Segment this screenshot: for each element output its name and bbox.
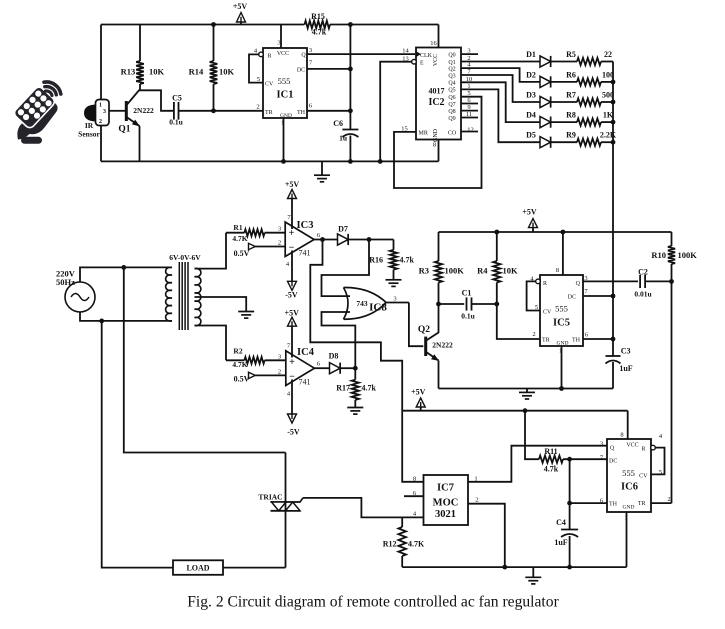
svg-text:14: 14: [402, 48, 409, 55]
svg-text:8: 8: [413, 476, 416, 483]
svg-text:741: 741: [299, 249, 311, 258]
svg-text:+5V: +5V: [522, 208, 537, 217]
svg-text:0.1u: 0.1u: [169, 118, 183, 127]
svg-text:R: R: [543, 281, 547, 287]
svg-text:-5V: -5V: [285, 291, 298, 300]
svg-text:743: 743: [356, 299, 368, 308]
svg-text:555: 555: [278, 76, 291, 86]
svg-text:+5V: +5V: [285, 180, 300, 189]
svg-text:R: R: [268, 54, 272, 60]
svg-text:CLK: CLK: [420, 53, 433, 59]
svg-text:Q8: Q8: [448, 109, 455, 115]
svg-text:6V-0V-6V: 6V-0V-6V: [169, 253, 201, 262]
svg-text:CV: CV: [265, 82, 274, 88]
svg-text:2.2K: 2.2K: [600, 131, 617, 140]
svg-text:R14: R14: [189, 67, 204, 77]
svg-text:C1: C1: [462, 289, 472, 298]
svg-text:IC1: IC1: [277, 90, 294, 101]
svg-text:D1: D1: [526, 50, 536, 59]
svg-text:R5: R5: [566, 50, 576, 59]
svg-text:741: 741: [299, 378, 311, 387]
svg-text:1: 1: [474, 476, 477, 483]
svg-text:IC4: IC4: [297, 347, 315, 358]
svg-text:D4: D4: [526, 111, 536, 120]
svg-text:Q7: Q7: [448, 102, 455, 108]
svg-text:R1: R1: [233, 223, 242, 232]
svg-text:3: 3: [277, 40, 280, 47]
svg-text:D7: D7: [338, 225, 348, 234]
svg-text:10K: 10K: [149, 67, 165, 77]
svg-text:Q: Q: [610, 446, 615, 452]
svg-text:C5: C5: [172, 94, 182, 103]
svg-text:3: 3: [393, 296, 396, 303]
svg-text:Q1: Q1: [448, 60, 455, 66]
svg-text:3021: 3021: [435, 509, 456, 520]
svg-text:1uF: 1uF: [554, 538, 567, 547]
svg-text:10K: 10K: [219, 67, 235, 77]
svg-text:R11: R11: [544, 447, 557, 456]
svg-text:0.1u: 0.1u: [461, 312, 475, 321]
svg-text:DC: DC: [609, 459, 617, 465]
svg-text:1uF: 1uF: [619, 364, 632, 373]
svg-text:CV: CV: [543, 310, 552, 316]
svg-text:IC5: IC5: [553, 318, 570, 329]
svg-text:IC7: IC7: [437, 483, 454, 494]
svg-text:R4: R4: [477, 266, 488, 276]
svg-text:0.5V: 0.5V: [234, 375, 250, 384]
svg-text:R13: R13: [121, 67, 136, 77]
svg-text:4.7k: 4.7k: [312, 28, 327, 37]
svg-text:Q0: Q0: [448, 52, 455, 58]
svg-text:4.7K: 4.7K: [408, 540, 425, 549]
svg-text:C4: C4: [556, 518, 566, 527]
svg-text:IC3: IC3: [297, 220, 314, 231]
svg-text:R6: R6: [566, 70, 576, 79]
svg-text:C3: C3: [621, 347, 631, 356]
svg-text:4.7k: 4.7k: [544, 465, 559, 474]
svg-text:+: +: [289, 357, 295, 368]
svg-text:TR: TR: [542, 338, 550, 344]
svg-text:VCC: VCC: [433, 54, 439, 66]
svg-text:GND: GND: [557, 341, 569, 347]
svg-text:D3: D3: [526, 91, 536, 100]
svg-text:Fig. 2 Circuit diagram of remo: Fig. 2 Circuit diagram of remote control…: [187, 594, 559, 611]
svg-text:100K: 100K: [445, 266, 465, 276]
svg-text:2: 2: [278, 369, 281, 376]
svg-text:5: 5: [659, 469, 662, 476]
svg-text:2: 2: [475, 497, 478, 504]
svg-text:2N222: 2N222: [432, 341, 453, 350]
svg-text:1u: 1u: [339, 134, 347, 143]
svg-text:DC: DC: [297, 68, 305, 74]
svg-text:MOC: MOC: [433, 498, 459, 509]
svg-text:100K: 100K: [678, 250, 698, 260]
svg-text:TRIAC: TRIAC: [258, 493, 282, 502]
svg-text:8: 8: [433, 142, 436, 149]
svg-text:TR: TR: [638, 501, 646, 507]
svg-text:555: 555: [622, 468, 635, 478]
svg-text:12: 12: [467, 127, 474, 134]
svg-text:Q2: Q2: [418, 325, 430, 335]
svg-text:2: 2: [278, 240, 281, 247]
svg-text:5: 5: [535, 304, 538, 311]
svg-text:Q: Q: [576, 281, 581, 287]
svg-text:-5V: -5V: [287, 428, 300, 437]
svg-text:8: 8: [620, 432, 623, 439]
svg-text:R12: R12: [383, 540, 397, 549]
svg-text:+5V: +5V: [233, 2, 248, 11]
svg-text:1: 1: [99, 103, 102, 109]
svg-text:Q9: Q9: [448, 116, 455, 122]
svg-text:10K: 10K: [503, 266, 519, 276]
svg-text:R15: R15: [311, 12, 325, 21]
svg-text:IC6: IC6: [621, 482, 638, 493]
svg-text:555: 555: [555, 304, 568, 314]
svg-text:5: 5: [257, 76, 260, 83]
svg-text:GND: GND: [623, 505, 635, 511]
svg-text:4.7k: 4.7k: [362, 384, 377, 393]
svg-text:CO: CO: [448, 131, 457, 137]
svg-text:VCC: VCC: [277, 51, 289, 57]
svg-text:E: E: [420, 61, 424, 67]
svg-text:IC8: IC8: [369, 302, 387, 314]
svg-text:D2: D2: [526, 70, 536, 79]
svg-text:TH: TH: [297, 110, 306, 116]
svg-text:2: 2: [667, 496, 670, 503]
svg-text:R17: R17: [336, 384, 350, 393]
svg-text:R16: R16: [369, 256, 383, 265]
svg-text:3: 3: [278, 226, 281, 233]
svg-text:MR: MR: [419, 131, 428, 137]
svg-text:VCC: VCC: [626, 443, 638, 449]
svg-text:Q2: Q2: [448, 66, 455, 72]
svg-text:3: 3: [309, 47, 312, 54]
svg-text:2: 2: [532, 331, 535, 338]
svg-text:8: 8: [556, 267, 559, 274]
svg-text:2: 2: [99, 119, 102, 125]
svg-text:4.7K: 4.7K: [232, 360, 247, 369]
svg-text:Q6: Q6: [448, 95, 455, 101]
svg-text:R9: R9: [566, 131, 576, 140]
svg-text:Q5: Q5: [448, 88, 455, 94]
svg-text:16: 16: [430, 40, 437, 47]
svg-text:R7: R7: [566, 91, 576, 100]
svg-text:Q4: Q4: [448, 81, 455, 87]
svg-text:13: 13: [402, 56, 409, 63]
svg-text:R10: R10: [651, 250, 666, 260]
svg-text:D5: D5: [526, 131, 536, 140]
svg-text:GND: GND: [280, 113, 292, 119]
svg-text:R: R: [641, 447, 645, 453]
svg-text:Q1: Q1: [118, 125, 130, 135]
svg-text:3: 3: [103, 109, 106, 115]
svg-text:50Hz: 50Hz: [56, 277, 75, 287]
svg-text:R8: R8: [566, 111, 576, 120]
svg-text:TH: TH: [609, 502, 618, 508]
svg-text:Q: Q: [301, 53, 306, 59]
svg-text:2: 2: [256, 104, 259, 111]
svg-text:D8: D8: [329, 352, 339, 361]
svg-text:4017: 4017: [429, 87, 445, 96]
svg-text:C6: C6: [333, 119, 343, 128]
svg-text:IC2: IC2: [428, 97, 444, 108]
svg-text:2N222: 2N222: [133, 106, 154, 115]
svg-text:DC: DC: [568, 295, 576, 301]
svg-text:4.7k: 4.7k: [400, 256, 415, 265]
svg-text:+5V: +5V: [411, 388, 426, 397]
svg-text:22: 22: [604, 50, 612, 59]
svg-text:CV: CV: [639, 474, 648, 480]
svg-text:0.01u: 0.01u: [634, 290, 651, 299]
svg-text:TR: TR: [265, 110, 273, 116]
svg-text:TH: TH: [572, 338, 581, 344]
svg-text:3: 3: [278, 354, 281, 361]
svg-text:4.7K: 4.7K: [232, 234, 247, 243]
svg-text:C2: C2: [638, 268, 648, 277]
svg-text:R3: R3: [419, 266, 429, 276]
svg-text:R2: R2: [233, 347, 242, 356]
svg-text:0.5V: 0.5V: [234, 249, 250, 258]
svg-text:Q3: Q3: [448, 73, 455, 79]
svg-text:Sensor: Sensor: [78, 130, 100, 139]
svg-text:LOAD: LOAD: [186, 564, 209, 573]
svg-text:+: +: [289, 228, 295, 239]
